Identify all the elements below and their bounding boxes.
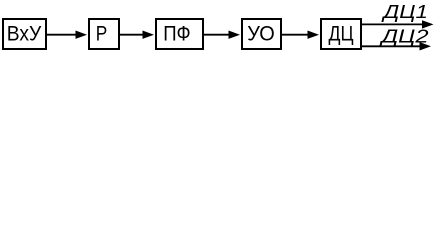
svg-text:ВхУ: ВхУ bbox=[7, 22, 42, 46]
svg-text:ПФ: ПФ bbox=[163, 22, 191, 46]
svg-text:ДЦ1: ДЦ1 bbox=[381, 2, 428, 22]
wire arrow УО to ДЦ bbox=[280, 31, 319, 39]
svg-text:УО: УО bbox=[247, 22, 274, 46]
output wire arrow 1 bbox=[361, 20, 434, 28]
block Р (regulator) bbox=[89, 19, 119, 49]
output wire arrow 2 bbox=[361, 42, 431, 50]
block ВхУ (input device) bbox=[3, 19, 46, 49]
wire arrow ВхУ to Р bbox=[46, 31, 87, 39]
wire arrow Р to ПФ bbox=[119, 31, 154, 39]
block ДЦ (differentiating chains) bbox=[321, 19, 361, 49]
svg-text:ДЦ: ДЦ bbox=[329, 22, 354, 46]
svg-text:Р: Р bbox=[96, 22, 108, 46]
wire arrow ПФ to УО bbox=[202, 31, 240, 39]
block УО (amplifier-limiter) bbox=[242, 19, 281, 49]
block ПФ (bandpass filter) bbox=[156, 19, 203, 49]
background bbox=[0, 0, 434, 55]
svg-text:ДЦ2: ДЦ2 bbox=[379, 26, 429, 46]
